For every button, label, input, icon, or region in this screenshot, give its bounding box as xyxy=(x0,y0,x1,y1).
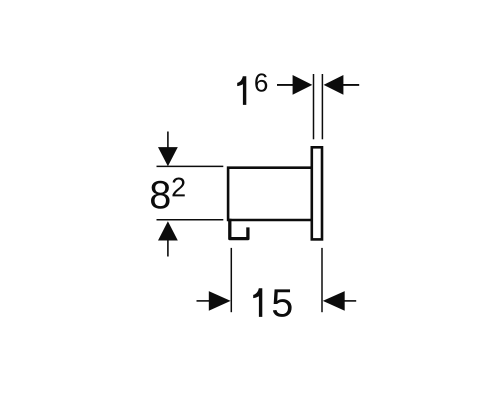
dimension 15 extension line left xyxy=(230,248,232,312)
hook lip xyxy=(230,219,248,239)
dimension label 15: digit 5 xyxy=(273,289,292,317)
dimension label 8 xyxy=(151,181,170,209)
dimension label 1 xyxy=(237,76,246,105)
dimension 8/2 down arrow xyxy=(167,132,169,149)
dimension 15 left arrow xyxy=(197,300,210,302)
dimension label 15: digit 1 xyxy=(253,288,262,317)
dimension 8/2 up arrow xyxy=(167,240,169,257)
dimension 15 right arrow xyxy=(344,300,356,302)
dimension 8/2 extension line top xyxy=(157,165,224,167)
bracket body outline xyxy=(228,168,312,220)
dimension 1/6 right arrow xyxy=(343,84,359,86)
wall plate xyxy=(312,147,322,239)
dimension 15 extension line right xyxy=(321,248,323,312)
dimension 8/2 extension line bottom xyxy=(157,219,224,221)
dimension label superscript 6 xyxy=(255,73,267,91)
dimension 1/6 extension line right xyxy=(321,74,323,139)
dimension 1/6 left arrow xyxy=(277,84,293,86)
dimension 1/6 extension line left xyxy=(313,74,315,139)
dimension label superscript 2 xyxy=(172,178,184,197)
